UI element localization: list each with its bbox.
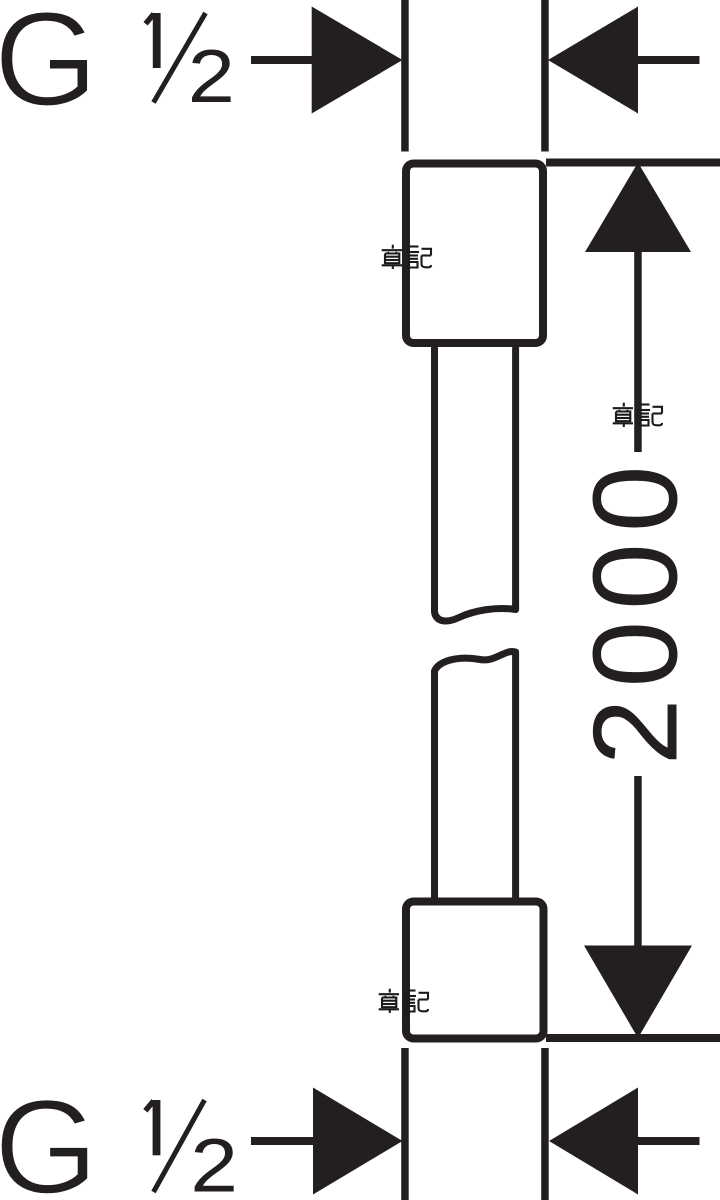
svg-text:2: 2 [188, 35, 235, 118]
svg-text:G: G [0, 0, 98, 134]
svg-text:2: 2 [190, 1124, 238, 1200]
svg-text:2000: 2000 [569, 454, 703, 765]
svg-text:G: G [0, 1073, 98, 1200]
